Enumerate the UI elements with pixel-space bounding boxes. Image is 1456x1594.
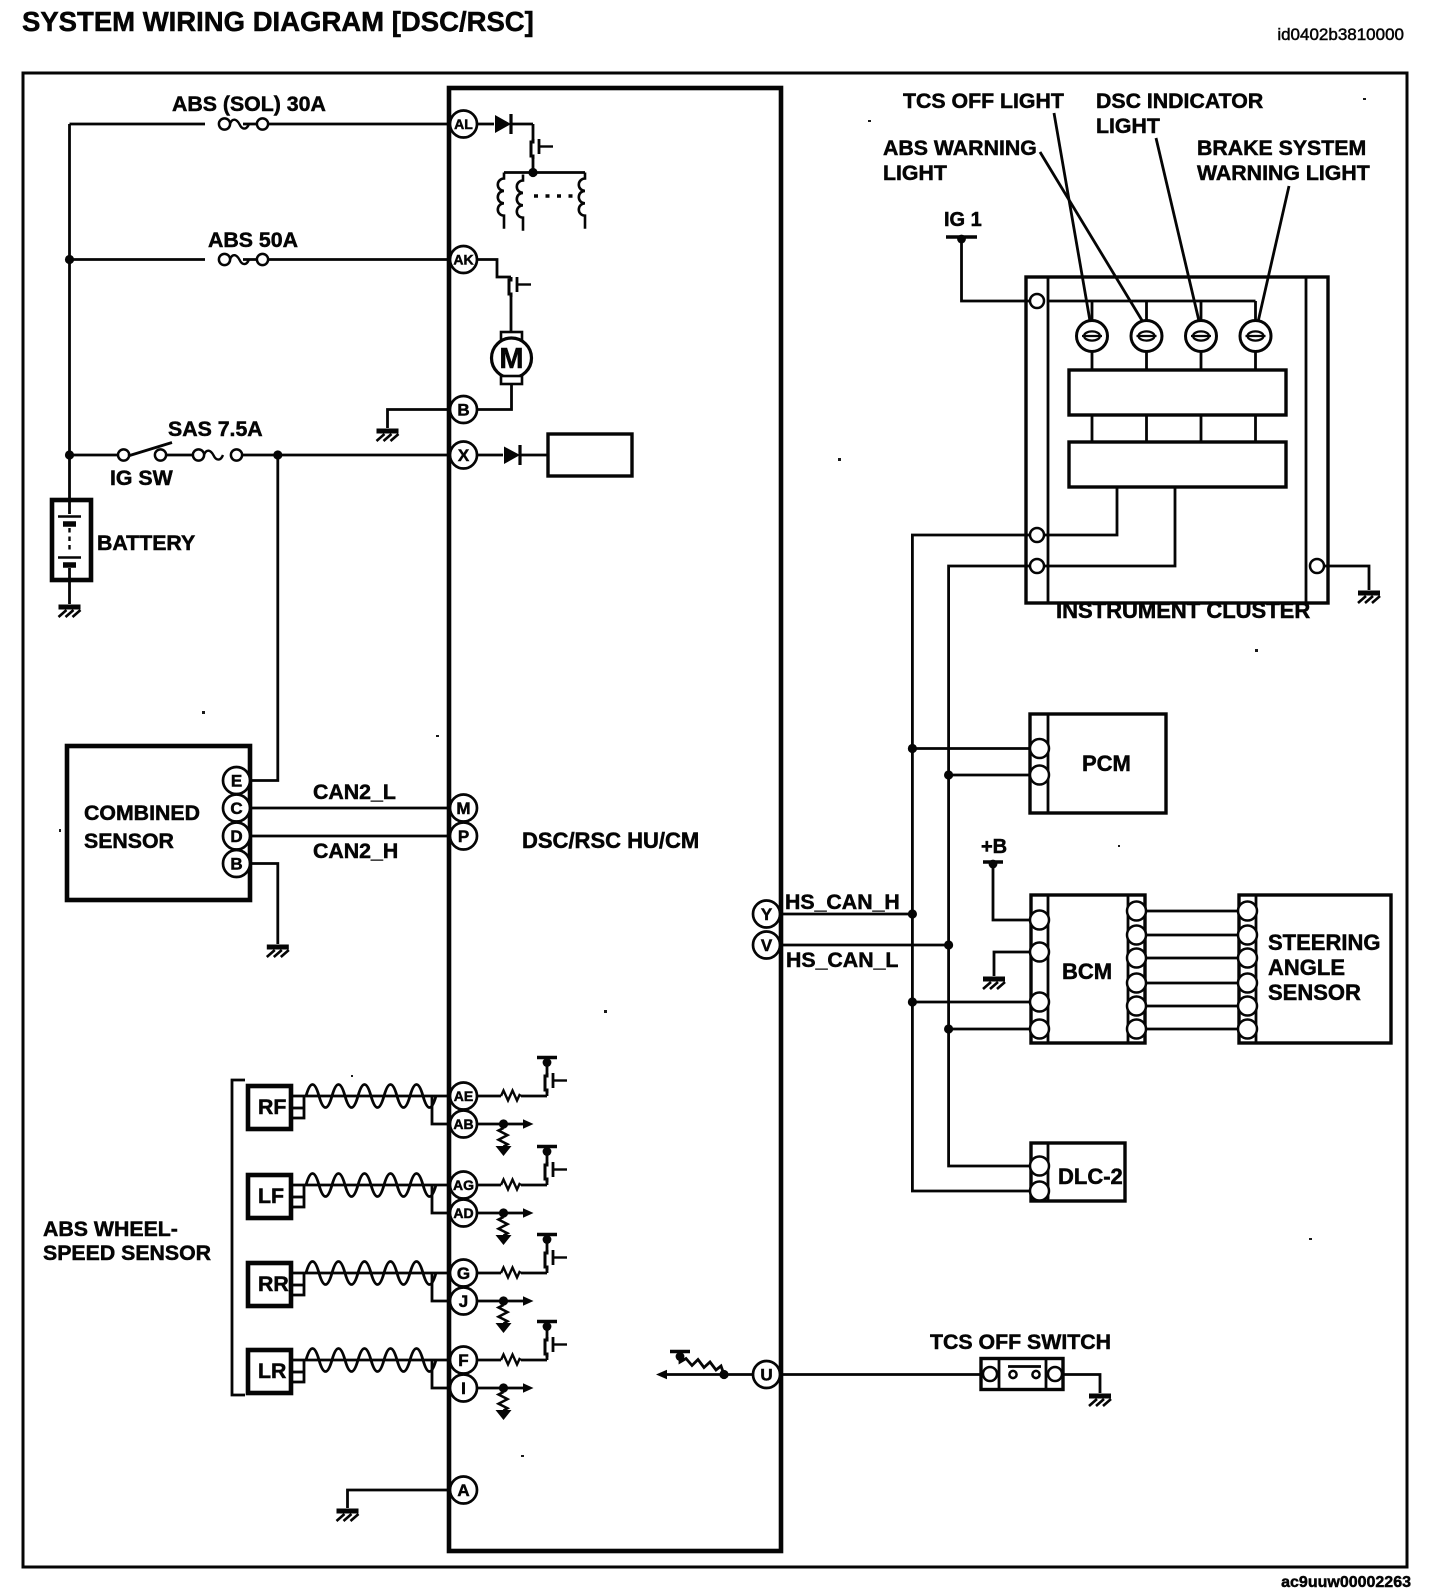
resistor R9 bbox=[680, 1357, 724, 1375]
svg-text:LIGHT: LIGHT bbox=[1096, 114, 1160, 138]
svg-text:AK: AK bbox=[453, 252, 473, 268]
arrow output bbox=[504, 1123, 525, 1126]
svg-text:TCS OFF LIGHT: TCS OFF LIGHT bbox=[903, 89, 1064, 113]
resistor R7 bbox=[477, 1359, 547, 1362]
INSTRUMENT CLUSTER box bbox=[1026, 277, 1328, 603]
pin P bbox=[450, 823, 477, 850]
wire Q1 source to solenoid bus bbox=[532, 159, 535, 173]
TCS input row at pin U bbox=[656, 1352, 754, 1380]
svg-text:LR: LR bbox=[258, 1359, 286, 1383]
svg-text:M: M bbox=[456, 799, 470, 818]
relay box at X bbox=[548, 434, 632, 476]
power tap bbox=[537, 1235, 557, 1244]
leader DSC INDICATOR to lamp3 bbox=[1156, 138, 1199, 321]
arrow output bbox=[504, 1212, 525, 1215]
pin I bbox=[450, 1375, 477, 1402]
solenoid coil L3 bbox=[579, 173, 585, 229]
resistor R8 bbox=[502, 1388, 505, 1392]
wire CAN2_H bbox=[250, 835, 449, 838]
fuse ABS 50A bbox=[219, 254, 268, 265]
row G/J internals bbox=[477, 1235, 567, 1334]
transistor Q2 bbox=[509, 277, 531, 297]
pin Y bbox=[753, 901, 780, 928]
COMBINED SENSOR box bbox=[67, 746, 250, 900]
wire +B to BCM bbox=[993, 864, 1030, 920]
resistor R6 bbox=[502, 1301, 505, 1305]
svg-text:SENSOR: SENSOR bbox=[1268, 980, 1361, 1005]
wire RF pin2 (to AB) bbox=[291, 1097, 450, 1124]
sensor RR bbox=[248, 1263, 291, 1306]
wire PCM pin2 bbox=[949, 774, 1030, 777]
svg-text:RR: RR bbox=[258, 1272, 289, 1296]
svg-text:+B: +B bbox=[981, 836, 1007, 858]
transistor Q4 bbox=[546, 1182, 549, 1185]
wire RR pin2 (to J) bbox=[291, 1274, 450, 1301]
wire BCM ground pin bbox=[994, 952, 1030, 976]
svg-text:D: D bbox=[230, 827, 242, 846]
row F/I internals bbox=[477, 1322, 567, 1421]
wire HS_CAN_H bbox=[780, 913, 912, 916]
ground at pin B bbox=[377, 431, 399, 441]
wire LR pin1 (twisted pair to F) bbox=[291, 1359, 450, 1362]
SAS connector circles bbox=[1238, 902, 1257, 921]
svg-text:AL: AL bbox=[454, 116, 473, 132]
switch IG SW bbox=[118, 449, 129, 460]
wire PCM pin1 bbox=[912, 747, 1030, 750]
resistor R2 bbox=[502, 1124, 505, 1128]
sensor RR connector tab bbox=[291, 1284, 304, 1287]
svg-text:B: B bbox=[457, 401, 469, 420]
BCM right connector circles bbox=[1127, 902, 1146, 921]
cluster left strip bbox=[1047, 277, 1050, 603]
svg-text:C: C bbox=[230, 799, 242, 818]
svg-text:M: M bbox=[499, 343, 523, 375]
pin M bbox=[450, 795, 477, 822]
BCM box bbox=[1031, 895, 1145, 1043]
wire LR pin2 (to I) bbox=[291, 1361, 450, 1388]
svg-text:F: F bbox=[458, 1351, 468, 1370]
lamp BRAKE WARNING bbox=[1240, 321, 1271, 352]
transistor Q1 bbox=[531, 139, 553, 159]
wire pin U to TCS OFF SWITCH bbox=[780, 1373, 981, 1376]
sensor RF connector tab bbox=[291, 1107, 304, 1110]
transistor Q6 bbox=[546, 1357, 549, 1360]
wire switch to ground bbox=[1063, 1375, 1100, 1394]
lamp drops bbox=[1092, 301, 1256, 321]
svg-text:P: P bbox=[458, 827, 469, 846]
pin AE bbox=[450, 1083, 477, 1110]
node BCM CAN-L tap bbox=[944, 1024, 953, 1033]
wires BCM to steering angle sensor bbox=[1146, 911, 1238, 1029]
wire RF pin1 (twisted pair to AE) bbox=[291, 1095, 450, 1098]
svg-text:DSC INDICATOR: DSC INDICATOR bbox=[1096, 89, 1263, 113]
svg-text:WARNING LIGHT: WARNING LIGHT bbox=[1197, 161, 1370, 185]
power tap bbox=[670, 1352, 690, 1361]
TCS OFF SWITCH bbox=[981, 1359, 1063, 1390]
pin V bbox=[753, 932, 780, 959]
lamp TCS OFF bbox=[1077, 321, 1108, 352]
svg-text:G: G bbox=[457, 1264, 470, 1283]
svg-text:AE: AE bbox=[454, 1088, 473, 1104]
PCM connector circles bbox=[1030, 739, 1049, 758]
pin J bbox=[450, 1288, 477, 1315]
svg-text:X: X bbox=[458, 446, 470, 465]
node PCM CAN-L tap bbox=[944, 770, 953, 779]
wire module2 to cluster pin 3 bbox=[1044, 487, 1175, 566]
wire HS_CAN_L bbox=[780, 944, 949, 947]
sensor RF bbox=[248, 1086, 291, 1129]
leader TCS OFF LIGHT to lamp1 bbox=[1054, 113, 1090, 321]
resistor R5 bbox=[477, 1272, 547, 1275]
arrow to ground bbox=[496, 1235, 512, 1245]
arrow output bbox=[504, 1387, 525, 1390]
wire pin B to ground bbox=[388, 410, 451, 429]
fuse ABS (SOL) 30A bbox=[219, 118, 268, 129]
lamp lower drops bbox=[1092, 352, 1256, 371]
pin AG bbox=[450, 1172, 477, 1199]
wire BCM CAN L pin bbox=[949, 1028, 1030, 1031]
DLC-2 connector circles bbox=[1030, 1157, 1049, 1176]
node HS_CAN_H junction bbox=[908, 909, 917, 918]
svg-text:J: J bbox=[459, 1292, 468, 1311]
pin AK bbox=[450, 246, 477, 273]
bracket bbox=[232, 1080, 245, 1395]
pin D bbox=[223, 823, 250, 850]
DSC/RSC HU/CM central box bbox=[449, 88, 781, 1551]
svg-text:STEERING: STEERING bbox=[1268, 930, 1380, 955]
svg-text:E: E bbox=[231, 772, 242, 791]
diode D2 after pin X bbox=[477, 454, 548, 457]
wire ABS 50A feed bbox=[70, 258, 450, 261]
resistor R1 bbox=[477, 1095, 547, 1098]
svg-text:ANGLE: ANGLE bbox=[1268, 955, 1345, 980]
battery B1 bbox=[68, 455, 71, 514]
pin C bbox=[223, 795, 250, 822]
arrow output bbox=[504, 1300, 525, 1303]
DLC-2 box bbox=[1031, 1143, 1125, 1201]
sensor LF connector tab bbox=[291, 1196, 304, 1199]
wire pin A to ground bbox=[348, 1490, 451, 1508]
pin AL bbox=[450, 111, 477, 138]
power tap bbox=[537, 1322, 557, 1331]
power tap bbox=[537, 1147, 557, 1156]
sensor LF bbox=[248, 1175, 291, 1218]
wire cluster to HS_CAN_L bus bbox=[949, 566, 1030, 1166]
svg-text:Y: Y bbox=[761, 905, 773, 924]
wire LF pin1 (twisted pair to AG) bbox=[291, 1184, 450, 1187]
wire IG1 to cluster bbox=[962, 239, 1032, 301]
row AE/AB internals bbox=[477, 1058, 567, 1157]
junction at battery tap bbox=[65, 450, 74, 459]
svg-text:id0402b3810000: id0402b3810000 bbox=[1277, 25, 1404, 44]
sensor LR connector tab bbox=[291, 1371, 304, 1374]
svg-text:RF: RF bbox=[258, 1095, 286, 1119]
wire ABS(SOL)30A feed bbox=[70, 123, 450, 126]
pin B bbox=[223, 850, 250, 877]
pin F bbox=[450, 1347, 477, 1374]
svg-text:B: B bbox=[230, 855, 242, 874]
svg-text:LF: LF bbox=[258, 1184, 284, 1208]
solenoid coil L2 bbox=[517, 175, 523, 231]
wire AL drain bbox=[532, 124, 535, 139]
arrow to ground bbox=[496, 1323, 512, 1333]
solenoid coil L1 bbox=[498, 173, 504, 229]
ground below battery bbox=[59, 607, 81, 617]
wire combined sensor pin B to ground bbox=[250, 864, 278, 945]
junction at ABS 50A tap bbox=[65, 255, 74, 264]
wire SAS/IG feed bbox=[70, 454, 450, 457]
svg-text:ac9uuw00002263: ac9uuw00002263 bbox=[1281, 1574, 1411, 1591]
svg-text:ABS (SOL) 30A: ABS (SOL) 30A bbox=[172, 92, 326, 116]
motor M1 pump bbox=[501, 332, 522, 340]
svg-text:ABS 50A: ABS 50A bbox=[208, 228, 298, 252]
junction at combined-sensor tap bbox=[273, 450, 282, 459]
ground for combined sensor bbox=[267, 947, 289, 957]
node I junction bbox=[477, 1387, 504, 1390]
wire LF pin2 (to AD) bbox=[291, 1186, 450, 1213]
lamp ABS WARNING bbox=[1131, 321, 1162, 352]
svg-text:ABS WARNING: ABS WARNING bbox=[883, 136, 1037, 160]
pin G bbox=[450, 1260, 477, 1287]
arrow to ground bbox=[496, 1410, 512, 1420]
svg-text:CAN2_H: CAN2_H bbox=[313, 839, 398, 863]
svg-text:BCM: BCM bbox=[1062, 959, 1112, 984]
svg-text:DSC/RSC HU/CM: DSC/RSC HU/CM bbox=[522, 828, 699, 853]
wire with arrow (logic input) bbox=[663, 1373, 754, 1376]
wire solenoid bus bbox=[504, 171, 585, 174]
wire: left feeder vertical bus bbox=[68, 124, 71, 455]
svg-text:SENSOR: SENSOR bbox=[84, 829, 174, 853]
fuse SAS 7.5A bbox=[193, 449, 242, 460]
svg-text:A: A bbox=[457, 1481, 469, 1500]
svg-text:LIGHT: LIGHT bbox=[883, 161, 947, 185]
arrow to ground bbox=[496, 1146, 512, 1156]
svg-text:AB: AB bbox=[453, 1116, 473, 1132]
svg-text:V: V bbox=[761, 936, 773, 955]
wire Q2 source to motor bbox=[510, 297, 513, 332]
node U junction bbox=[719, 1370, 728, 1379]
wire cluster to HS_CAN_H bus bbox=[912, 535, 1030, 1191]
pin X bbox=[450, 442, 477, 469]
cluster module 2 bbox=[1069, 442, 1286, 487]
node AD junction bbox=[477, 1212, 504, 1215]
node HS_CAN_L junction bbox=[944, 940, 953, 949]
PCM box bbox=[1030, 714, 1166, 813]
leader ABS WARNING to lamp2 bbox=[1040, 152, 1143, 322]
leader BRAKE SYSTEM to lamp4 bbox=[1258, 186, 1289, 322]
pin AD bbox=[450, 1200, 477, 1227]
wire module2 to cluster pin 2 bbox=[1044, 487, 1117, 535]
svg-text:SYSTEM WIRING DIAGRAM [DSC/RSC: SYSTEM WIRING DIAGRAM [DSC/RSC] bbox=[22, 6, 534, 37]
node J junction bbox=[477, 1300, 504, 1303]
svg-text:CAN2_L: CAN2_L bbox=[313, 780, 396, 804]
wire RR pin1 (twisted pair to G) bbox=[291, 1272, 450, 1275]
svg-text:INSTRUMENT CLUSTER: INSTRUMENT CLUSTER bbox=[1056, 598, 1310, 623]
cluster lamp bus bbox=[1048, 300, 1256, 303]
svg-text:HS_CAN_H: HS_CAN_H bbox=[785, 890, 900, 914]
wire BCM CAN H pin bbox=[912, 1001, 1030, 1004]
wire from pin AK to Q2 bbox=[477, 260, 511, 278]
wire to combined sensor pin E bbox=[250, 455, 278, 781]
ground at pin A bbox=[337, 1511, 359, 1521]
svg-text:BRAKE SYSTEM: BRAKE SYSTEM bbox=[1197, 136, 1366, 160]
svg-text:ABS WHEEL-: ABS WHEEL- bbox=[43, 1217, 178, 1241]
scan specks (noise) bbox=[59, 98, 1366, 1457]
node AB junction bbox=[477, 1123, 504, 1126]
cluster connector circles bbox=[1030, 294, 1044, 308]
pin E bbox=[223, 767, 250, 794]
BCM left connector circles bbox=[1030, 911, 1049, 930]
lamp DSC INDICATOR bbox=[1186, 321, 1217, 352]
power tap bbox=[537, 1058, 557, 1067]
resistor R3 bbox=[477, 1184, 547, 1187]
wire CAN2_L bbox=[250, 807, 449, 810]
dotted continuation bbox=[534, 194, 578, 197]
pin A bbox=[450, 1477, 477, 1504]
svg-text:U: U bbox=[760, 1366, 772, 1385]
svg-text:BATTERY: BATTERY bbox=[97, 531, 195, 555]
svg-text:AG: AG bbox=[453, 1177, 474, 1193]
diode D1 after pin AL bbox=[477, 123, 533, 126]
svg-text:PCM: PCM bbox=[1082, 751, 1131, 776]
svg-text:SAS 7.5A: SAS 7.5A bbox=[168, 417, 263, 441]
pin B bbox=[450, 396, 477, 423]
sensor LR bbox=[248, 1350, 291, 1393]
cluster module 1 bbox=[1069, 370, 1286, 415]
STEERING ANGLE SENSOR box bbox=[1239, 895, 1391, 1043]
node solenoid bus junction bbox=[528, 168, 537, 177]
cluster right strip bbox=[1305, 277, 1308, 603]
node BCM CAN-H tap bbox=[908, 997, 917, 1006]
transistor Q5 bbox=[546, 1270, 549, 1273]
svg-text:I: I bbox=[461, 1379, 466, 1398]
svg-text:IG SW: IG SW bbox=[110, 466, 174, 490]
svg-text:IG 1: IG 1 bbox=[944, 209, 982, 231]
transistor Q3 bbox=[546, 1093, 549, 1096]
wire motor to pin B bbox=[477, 384, 512, 410]
svg-text:TCS OFF SWITCH: TCS OFF SWITCH bbox=[930, 1330, 1111, 1354]
svg-text:SPEED SENSOR: SPEED SENSOR bbox=[43, 1241, 211, 1265]
pin AB bbox=[450, 1111, 477, 1138]
module interconnects bbox=[1092, 415, 1256, 442]
pin U bbox=[753, 1361, 780, 1388]
node PCM CAN-H tap bbox=[908, 744, 917, 753]
row AG/AD internals bbox=[477, 1147, 567, 1246]
svg-text:DLC-2: DLC-2 bbox=[1058, 1164, 1123, 1189]
resistor R4 bbox=[502, 1213, 505, 1217]
svg-text:HS_CAN_L: HS_CAN_L bbox=[786, 948, 898, 972]
wire cluster pin4 to ground bbox=[1324, 566, 1369, 590]
svg-text:COMBINED: COMBINED bbox=[84, 801, 200, 825]
svg-text:AD: AD bbox=[453, 1205, 473, 1221]
